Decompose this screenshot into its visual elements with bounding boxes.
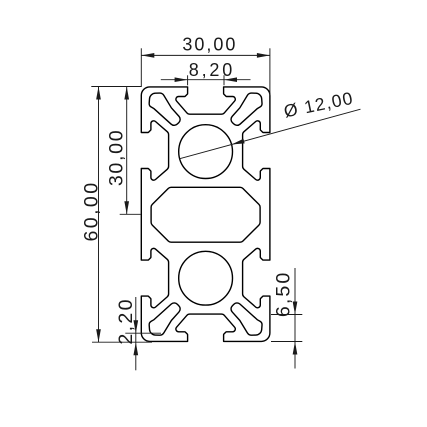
svg-text:60,00: 60,00 bbox=[80, 180, 102, 241]
svg-text:8,20: 8,20 bbox=[189, 60, 235, 80]
svg-text:30,00: 30,00 bbox=[105, 129, 127, 187]
svg-text:30,00: 30,00 bbox=[182, 34, 237, 54]
svg-text:2,20: 2,20 bbox=[115, 297, 137, 344]
svg-text:6,50: 6,50 bbox=[272, 271, 294, 318]
